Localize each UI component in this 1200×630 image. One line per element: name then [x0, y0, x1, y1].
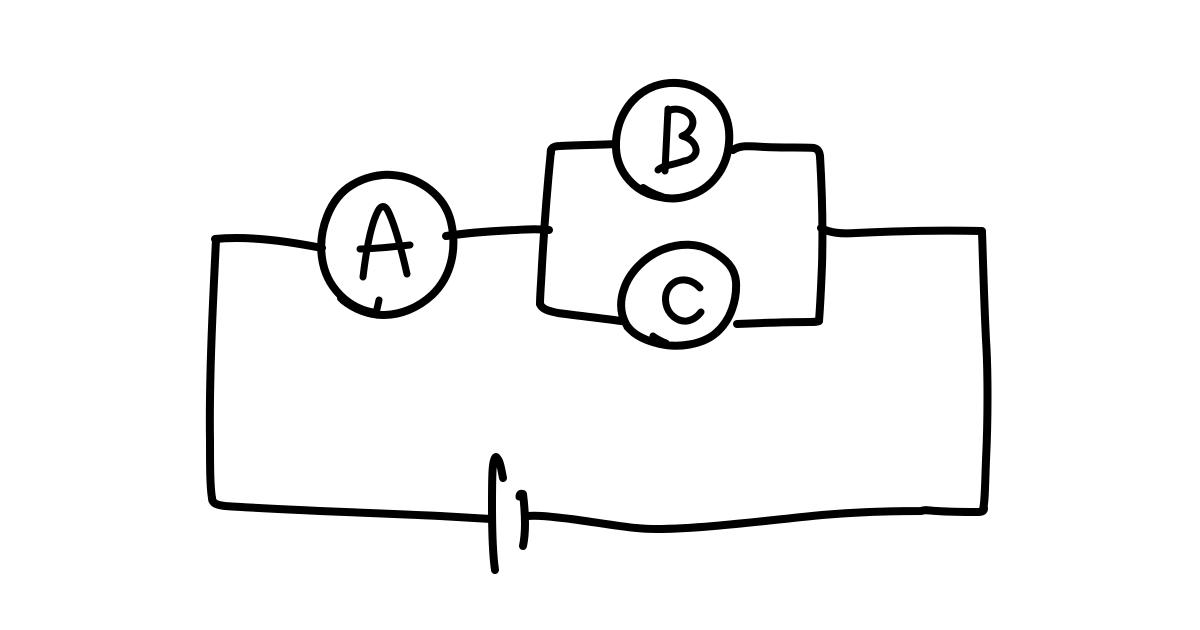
battery BT1: short plate start nub [519, 493, 523, 497]
wire: top-left horizontal from corner to meter A [215, 238, 322, 248]
wire: left vertical side of outer loop [210, 240, 216, 498]
wire: bottom right horizontal (battery to right corner) [527, 508, 984, 529]
lamp B (circle) [616, 83, 729, 198]
battery BT1: short plate (negative) [523, 494, 525, 546]
wire: right vertical side of outer loop [982, 232, 988, 509]
battery BT1: long plate (positive) [492, 457, 503, 570]
meter A overlap tail [341, 298, 374, 314]
wire: top branch left (junction corner to lamp B) [551, 144, 616, 153]
label A: crossbar [360, 245, 410, 249]
wire: parallel block right vertical [819, 156, 822, 321]
wire: meter A to parallel-junction [446, 229, 549, 236]
lamp C (circle) [621, 245, 736, 346]
lamp B overlap tick [643, 188, 662, 197]
meter A pen tick [376, 300, 379, 313]
label B: stem [665, 109, 668, 171]
lamp C overlap doubled stroke [627, 327, 658, 343]
label B: double bumps with tail [658, 109, 696, 170]
wire: block exit to right vertical [821, 228, 982, 233]
wire: top branch right (lamp B to block corner) [733, 146, 820, 158]
wire: bottom branch left (block corner to lamp C) [540, 304, 621, 321]
wire: parallel block left vertical [540, 150, 551, 304]
wire: bottom left horizontal (left corner to battery) [212, 498, 491, 519]
label A: arch stroke [363, 207, 407, 278]
label C [665, 280, 701, 321]
lamp C overlap tick [653, 336, 666, 343]
meter A (circle) [321, 175, 453, 315]
wire: bottom branch right (lamp C to block corner) [737, 321, 819, 324]
